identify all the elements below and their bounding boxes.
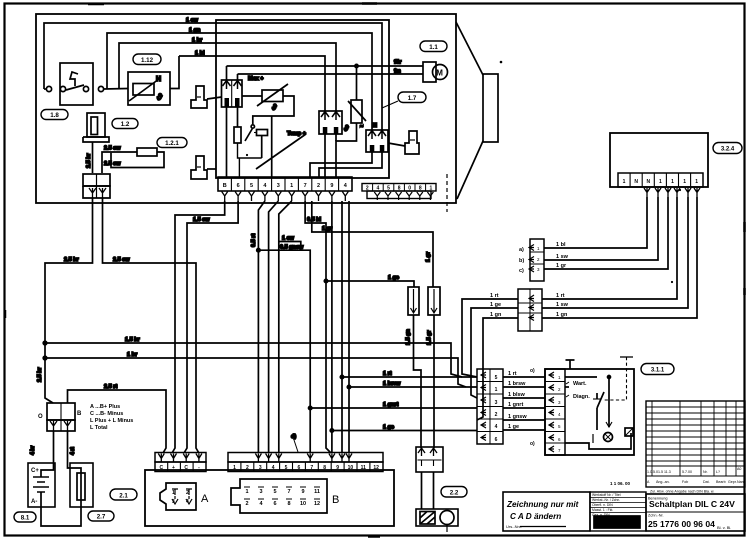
label 3.2.4 bbox=[713, 143, 742, 154]
svg-text:Gepr.: Gepr. bbox=[728, 480, 737, 484]
label 1.2.1 bbox=[157, 138, 187, 148]
loop T down to strip bbox=[271, 116, 273, 177]
svg-text:1 rt: 1 rt bbox=[383, 371, 392, 377]
svg-text:2: 2 bbox=[317, 183, 320, 189]
G_311 bbox=[477, 357, 634, 455]
connector arrows bbox=[89, 188, 96, 198]
svg-text:2.5 br: 2.5 br bbox=[37, 366, 43, 382]
bottom loop bbox=[565, 433, 631, 449]
top stub bbox=[566, 360, 575, 369]
svg-text:1: 1 bbox=[290, 183, 293, 189]
glow plug pin wire 2.5 bbox=[92, 142, 94, 173]
svg-text:Zeichnung nur mit: Zeichnung nur mit bbox=[506, 500, 579, 509]
wires down to pump bbox=[422, 472, 434, 509]
revision table bbox=[646, 401, 745, 487]
fuse1 wire down to 2.2 bbox=[414, 315, 422, 448]
svg-text:C ...B- Minus: C ...B- Minus bbox=[90, 411, 123, 417]
svg-text:H: H bbox=[156, 76, 161, 83]
switch symbol bbox=[596, 393, 598, 412]
label 2.7 bbox=[88, 511, 114, 521]
svg-text:1.12: 1.12 bbox=[141, 57, 154, 64]
svg-text:b): b) bbox=[519, 258, 524, 264]
wire switch left bbox=[44, 88, 46, 90]
wire 1 gn bbox=[107, 33, 372, 130]
svg-text:1 gnrt: 1 gnrt bbox=[508, 402, 523, 408]
wire 1.5 br long bbox=[45, 343, 462, 377]
svg-text:1: 1 bbox=[659, 179, 662, 185]
svg-text:B: B bbox=[332, 494, 339, 506]
wire 0.5 bl bbox=[305, 201, 331, 453]
svg-text:M: M bbox=[436, 69, 443, 78]
connector 3.2.2 bbox=[518, 289, 542, 331]
motor M 1.1 bbox=[423, 62, 436, 82]
svg-text:Werkst.-Nr. / Zchn.: Werkst.-Nr. / Zchn. bbox=[592, 498, 620, 502]
link 0.5 gnsw to B7 bbox=[258, 250, 310, 453]
exhaust rectangle bbox=[483, 74, 498, 142]
svg-text:1 ge: 1 ge bbox=[383, 425, 394, 431]
svg-text:11: 11 bbox=[314, 489, 320, 495]
svg-text:10: 10 bbox=[300, 501, 306, 507]
svg-text:8.1: 8.1 bbox=[21, 515, 30, 522]
svg-text:1: 1 bbox=[245, 489, 248, 495]
resistor R2 bbox=[234, 127, 241, 143]
wire 2.5 sw to A strip bbox=[103, 198, 199, 453]
K2 pins down bbox=[325, 134, 336, 177]
svg-text:2: 2 bbox=[495, 412, 498, 418]
plug A outline bbox=[160, 483, 196, 510]
svg-text:0.5 bl: 0.5 bl bbox=[307, 217, 322, 223]
svg-text:4 br: 4 br bbox=[30, 446, 36, 455]
heater unit block 1.7 outline bbox=[36, 14, 456, 203]
wire cell6 down bbox=[279, 201, 292, 453]
junction dots bbox=[43, 341, 47, 345]
pump box bbox=[416, 509, 458, 526]
funnel bottom diagonal bbox=[457, 141, 483, 199]
K1 pin1 up to motor wire bbox=[226, 66, 228, 80]
svg-text:2: 2 bbox=[245, 501, 248, 507]
svg-text:L Total: L Total bbox=[90, 425, 108, 431]
svg-text:1 brsw: 1 brsw bbox=[508, 381, 526, 387]
wire cell5 down bbox=[269, 201, 279, 453]
svg-text:1: 1 bbox=[683, 179, 686, 185]
svg-text:1.2.1: 1.2.1 bbox=[165, 140, 179, 147]
wire switch to thermostat bbox=[104, 88, 128, 91]
svg-text:Dat.: Dat. bbox=[703, 480, 710, 484]
black stamp bbox=[594, 516, 640, 528]
resistor right wire loop bbox=[111, 152, 164, 168]
label 1.7 + leader bbox=[398, 92, 426, 103]
wire c10 down with 1 rt tap bbox=[341, 201, 343, 453]
svg-text:Zul. Abw. ohne Angabe nach DIN: Zul. Abw. ohne Angabe nach DIN Bla. w. bbox=[650, 490, 714, 494]
svg-text:Max +: Max + bbox=[248, 76, 263, 82]
svg-text:4: 4 bbox=[495, 424, 498, 430]
label 2.2 bbox=[441, 487, 467, 498]
label 1.2 bbox=[112, 119, 138, 129]
R2 bottom U-link bbox=[238, 143, 262, 177]
svg-text:Wart.: Wart. bbox=[573, 381, 587, 387]
svg-text:A-: A- bbox=[31, 499, 37, 505]
K1 pin1 down to strip bbox=[226, 107, 228, 177]
svg-text:6: 6 bbox=[237, 183, 240, 189]
svg-text:5.7.00: 5.7.00 bbox=[682, 470, 692, 474]
svg-text:6: 6 bbox=[495, 437, 498, 443]
svg-text:3: 3 bbox=[172, 499, 175, 505]
svg-text:Urs.-Nrc.: Urs.-Nrc. bbox=[506, 524, 522, 529]
dashed edge mark bbox=[446, 174, 448, 212]
fuse 2.7 box bbox=[70, 463, 93, 507]
connector housing 2.1 bbox=[145, 470, 394, 526]
svg-text:9: 9 bbox=[330, 183, 333, 189]
svg-text:2.7: 2.7 bbox=[97, 514, 106, 521]
label 2.1 bbox=[110, 489, 137, 500]
G_324 bbox=[462, 133, 708, 420]
resistor bottom link bbox=[336, 123, 357, 177]
svg-text:1.0.5.01.5 11.3: 1.0.5.01.5 11.3 bbox=[647, 470, 671, 474]
svg-text:A ...B+ Plus: A ...B+ Plus bbox=[90, 404, 120, 410]
fuse2 wire down to 2.2 bbox=[433, 315, 435, 448]
fuse F2 bbox=[428, 287, 440, 315]
left bottom connector of heater bbox=[83, 174, 110, 186]
svg-text:1 gnrt: 1 gnrt bbox=[383, 402, 398, 408]
svg-text:8: 8 bbox=[287, 501, 290, 507]
G_BATTERY bbox=[28, 198, 466, 526]
svg-text:1 rt: 1 rt bbox=[508, 371, 517, 377]
relay K3 bbox=[366, 130, 388, 152]
svg-text:1 1 06. 00: 1 1 06. 00 bbox=[610, 481, 631, 486]
switch contact circles bbox=[46, 86, 51, 91]
wire c9 down with 1 ge tap bbox=[331, 201, 333, 453]
wire K1 to R1 bbox=[242, 95, 262, 97]
A terminal strip bbox=[155, 453, 206, 463]
svg-text:1 sw: 1 sw bbox=[186, 18, 199, 24]
R1 right loop bbox=[253, 96, 294, 124]
svg-text:Werkstoff Nr. / Titel: Werkstoff Nr. / Titel bbox=[592, 493, 621, 497]
OB connector bbox=[47, 403, 75, 420]
B terminal strip bbox=[228, 453, 383, 463]
svg-text:3: 3 bbox=[277, 183, 280, 189]
aux box bbox=[257, 130, 268, 136]
svg-text:fm: fm bbox=[394, 69, 401, 75]
G_CONTROL bbox=[191, 20, 448, 212]
svg-text:2.2: 2.2 bbox=[450, 490, 459, 497]
fuse F1 bbox=[408, 287, 419, 315]
wire 1 ge bbox=[332, 430, 477, 432]
heater unit 3.1.1 box bbox=[545, 369, 634, 455]
svg-text:2.5 br: 2.5 br bbox=[86, 152, 92, 168]
K1 pin2 up to motor wire bbox=[237, 74, 239, 80]
svg-text:1 rt: 1 rt bbox=[556, 293, 565, 299]
wire 1 rt bbox=[342, 376, 477, 378]
svg-text:B: B bbox=[223, 183, 227, 189]
G_LEFTCOMP bbox=[44, 56, 179, 198]
wire to resistor loop bbox=[102, 152, 137, 173]
svg-text:4 rt: 4 rt bbox=[70, 447, 76, 455]
resistor 1.2.1 bbox=[137, 148, 157, 156]
key plug lower bbox=[191, 156, 207, 179]
svg-text:2.5 br: 2.5 br bbox=[64, 257, 80, 263]
G_TOPWIRES bbox=[44, 18, 382, 131]
svg-text:für: für bbox=[394, 60, 402, 66]
svg-text:1 sw: 1 sw bbox=[556, 254, 569, 260]
switch S1 (1.8) box bbox=[60, 63, 93, 105]
wires down from 3.2.4 bbox=[544, 197, 647, 248]
svg-text:2.5 sw: 2.5 sw bbox=[113, 257, 130, 263]
svg-text:L?: L? bbox=[716, 470, 720, 474]
glow plug 1.2 body bbox=[87, 113, 105, 137]
svg-text:7: 7 bbox=[287, 489, 290, 495]
svg-text:Bl. v. Bl.: Bl. v. Bl. bbox=[717, 525, 731, 530]
svg-text:L Plus + L Minus: L Plus + L Minus bbox=[90, 418, 133, 424]
heating resistor R1 bbox=[262, 90, 283, 102]
svg-text:3: 3 bbox=[259, 489, 262, 495]
vertical resistor bbox=[351, 100, 362, 123]
svg-text:1 gn: 1 gn bbox=[556, 312, 568, 318]
svg-text:Diagn.: Diagn. bbox=[573, 394, 590, 400]
svg-text:N: N bbox=[634, 179, 638, 185]
svg-text:1 br: 1 br bbox=[192, 38, 203, 44]
wire 1.5 sw cell1 to A-strip bbox=[172, 201, 225, 453]
svg-text:1.5 sw: 1.5 sw bbox=[193, 217, 210, 223]
svg-text:2.1: 2.1 bbox=[119, 492, 128, 499]
svg-text:5: 5 bbox=[273, 489, 276, 495]
internal wires bbox=[565, 376, 597, 378]
svg-text:1 ge: 1 ge bbox=[490, 302, 501, 308]
svg-text:1 bl: 1 bl bbox=[556, 242, 566, 248]
wire 1 gnrt bbox=[310, 407, 477, 409]
thermostat R-H (1.12) box bbox=[128, 72, 170, 105]
stub wires to 3.1.1 bbox=[503, 377, 545, 430]
svg-text:6: 6 bbox=[273, 501, 276, 507]
svg-text:3: 3 bbox=[495, 400, 498, 406]
CAD stamp box bbox=[503, 492, 590, 531]
thermostat diagonal bbox=[129, 79, 159, 101]
strip arrows bbox=[222, 192, 349, 202]
motor wire 2 bbox=[238, 73, 424, 75]
svg-text:C+: C+ bbox=[31, 468, 39, 474]
svg-text:2.5 sw: 2.5 sw bbox=[104, 161, 121, 167]
wire cell2 to A-strip bbox=[184, 201, 238, 453]
svg-text:1 gn: 1 gn bbox=[189, 28, 201, 34]
svg-text:1: 1 bbox=[695, 179, 698, 185]
svg-text:4: 4 bbox=[186, 499, 189, 505]
svg-text:C A D ändern: C A D ändern bbox=[510, 512, 561, 521]
wire 1 sw bbox=[44, 23, 382, 130]
label 1.12 bbox=[133, 54, 161, 65]
svg-text:1 sw: 1 sw bbox=[556, 302, 569, 308]
main terminal strip bbox=[218, 177, 352, 191]
timer block 3.2.4 bbox=[610, 133, 708, 187]
svg-text:1 rt: 1 rt bbox=[490, 293, 499, 299]
link 1 sw bbox=[279, 242, 301, 251]
G_BUNDLE bbox=[172, 201, 440, 453]
svg-text:1: 1 bbox=[495, 387, 498, 393]
G_MIDWIRES bbox=[309, 371, 478, 432]
svg-text:o): o) bbox=[530, 441, 535, 447]
wire 1 br long bbox=[45, 358, 466, 387]
wire 1 bl bbox=[179, 56, 325, 111]
relay K1 bbox=[222, 80, 243, 107]
svg-text:0.5 gnsw: 0.5 gnsw bbox=[280, 245, 304, 251]
switch contact bbox=[251, 125, 254, 128]
second terminal strip bbox=[362, 184, 436, 192]
label 1.8 bbox=[41, 110, 68, 120]
label 1.1 bbox=[420, 41, 447, 52]
svg-text:Bearb: Bearb bbox=[716, 480, 726, 484]
svg-text:Nam: Nam bbox=[737, 480, 745, 484]
middle stamp column bbox=[590, 492, 646, 531]
connector X 6pin bbox=[477, 369, 503, 444]
svg-text:1.1: 1.1 bbox=[429, 44, 438, 51]
svg-text:d): d) bbox=[291, 434, 296, 440]
svg-text:1: 1 bbox=[172, 490, 175, 496]
svg-text:3.2.4: 3.2.4 bbox=[721, 147, 735, 153]
dashed antenna bbox=[620, 356, 633, 358]
connector abc bbox=[530, 239, 544, 281]
key plug left bbox=[191, 86, 207, 108]
wire 1 ge to fuse1 bbox=[326, 281, 414, 287]
svg-text:1 gn: 1 gn bbox=[490, 312, 502, 318]
K1 pin2 down to R2 bbox=[237, 107, 239, 127]
svg-text:Nr.: Nr. bbox=[703, 470, 708, 474]
svg-text:1.7: 1.7 bbox=[408, 95, 417, 102]
svg-text:12: 12 bbox=[314, 501, 320, 507]
svg-text:2.5 sw: 2.5 sw bbox=[104, 146, 121, 152]
svg-text:Oberfl. n. DIN: Oberfl. n. DIN bbox=[592, 503, 613, 507]
texts A B+ plus bbox=[90, 404, 133, 431]
svg-text:ϑ: ϑ bbox=[344, 124, 349, 133]
K3 pin elbows down bbox=[310, 152, 372, 177]
svg-text:N: N bbox=[646, 179, 650, 185]
svg-text:25 1776 00 96 04: 25 1776 00 96 04 bbox=[648, 519, 715, 529]
relay K2 bbox=[319, 111, 342, 134]
battery feed wires bbox=[53, 431, 55, 465]
svg-text:A0: A0 bbox=[737, 467, 741, 471]
glow plug flange bbox=[83, 137, 109, 142]
funnel top diagonal bbox=[456, 22, 483, 75]
svg-text:1.2: 1.2 bbox=[121, 121, 130, 128]
svg-text:1 ge: 1 ge bbox=[508, 424, 519, 430]
svg-text:1 brsw: 1 brsw bbox=[383, 381, 401, 387]
G_HEATER bbox=[36, 14, 498, 203]
svg-text:ϑ: ϑ bbox=[272, 103, 277, 112]
wire c11 down with 1 brsw tap bbox=[348, 201, 350, 453]
G_RELAY22 bbox=[416, 447, 458, 532]
thermostat resistor bbox=[133, 84, 154, 96]
svg-text:1: 1 bbox=[671, 179, 674, 185]
svg-text:A: A bbox=[201, 493, 209, 505]
switch lever bbox=[66, 85, 84, 90]
svg-text:Äng.-an.: Äng.-an. bbox=[656, 480, 670, 484]
key plug right bbox=[405, 131, 419, 154]
label 3.1.1 bbox=[641, 364, 674, 375]
svg-text:7: 7 bbox=[304, 183, 307, 189]
control unit 1.7 box bbox=[216, 20, 389, 178]
svg-text:1 gr: 1 gr bbox=[426, 251, 432, 262]
svg-text:5: 5 bbox=[495, 375, 498, 381]
svg-text:B: B bbox=[77, 411, 82, 417]
label 8.1 bbox=[14, 512, 36, 522]
svg-text:1 ge: 1 ge bbox=[388, 275, 399, 281]
left wires of 3.2.2 bbox=[462, 299, 518, 377]
wire 2.5 br left connector down bbox=[45, 198, 93, 403]
G_BOTTOM bbox=[145, 453, 394, 527]
svg-text:1 gnsw: 1 gnsw bbox=[508, 414, 527, 420]
G_TITLE bbox=[503, 401, 745, 531]
svg-text:9: 9 bbox=[301, 489, 304, 495]
plug B outline bbox=[231, 479, 327, 513]
svg-text:a): a) bbox=[519, 247, 524, 253]
indicator symbols bbox=[604, 433, 613, 442]
relay 2.2 box bbox=[416, 447, 443, 472]
thermostat right wire bbox=[170, 56, 179, 89]
motor wire 1 bbox=[227, 65, 424, 67]
battery 8.1 box bbox=[28, 463, 55, 507]
svg-text:c): c) bbox=[519, 268, 524, 274]
svg-text:3.1.1: 3.1.1 bbox=[651, 368, 665, 374]
svg-text:5: 5 bbox=[250, 183, 253, 189]
wire 1 gr to fuse2 bbox=[312, 201, 433, 287]
svg-text:0.5 rt: 0.5 rt bbox=[251, 234, 257, 247]
svg-text:1 bl: 1 bl bbox=[195, 51, 205, 57]
svg-text:2.5 rt: 2.5 rt bbox=[104, 384, 117, 390]
svg-text:2: 2 bbox=[186, 490, 189, 496]
svg-text:Fob: Fob bbox=[682, 480, 688, 484]
svg-text:Masst. 1 : Fkt.: Masst. 1 : Fkt. bbox=[592, 508, 613, 512]
svg-text:1 blsw: 1 blsw bbox=[508, 392, 526, 398]
wire 1 brsw bbox=[349, 386, 477, 388]
svg-text:1.8: 1.8 bbox=[50, 112, 59, 119]
svg-text:O: O bbox=[38, 414, 43, 420]
wire 1 br bbox=[119, 43, 336, 111]
svg-text:1.5 br: 1.5 br bbox=[125, 337, 141, 343]
svg-text:1 sw: 1 sw bbox=[282, 236, 295, 242]
svg-text:Zchn.-Nr.: Zchn.-Nr. bbox=[648, 514, 664, 518]
svg-text:N: N bbox=[373, 123, 377, 129]
svg-text:Schaltplan DIL C 24V: Schaltplan DIL C 24V bbox=[649, 499, 735, 509]
wire 0.5 rt down bbox=[258, 201, 265, 453]
title box bbox=[646, 494, 745, 531]
svg-text:1 gr: 1 gr bbox=[556, 263, 567, 269]
svg-text:1 br: 1 br bbox=[127, 352, 138, 358]
wire 2.5 rt bbox=[68, 390, 167, 453]
svg-text:1: 1 bbox=[623, 179, 626, 185]
K2 lever diagonal bbox=[256, 134, 306, 169]
bottom link wire bbox=[41, 507, 81, 526]
svg-text:o): o) bbox=[530, 368, 535, 374]
